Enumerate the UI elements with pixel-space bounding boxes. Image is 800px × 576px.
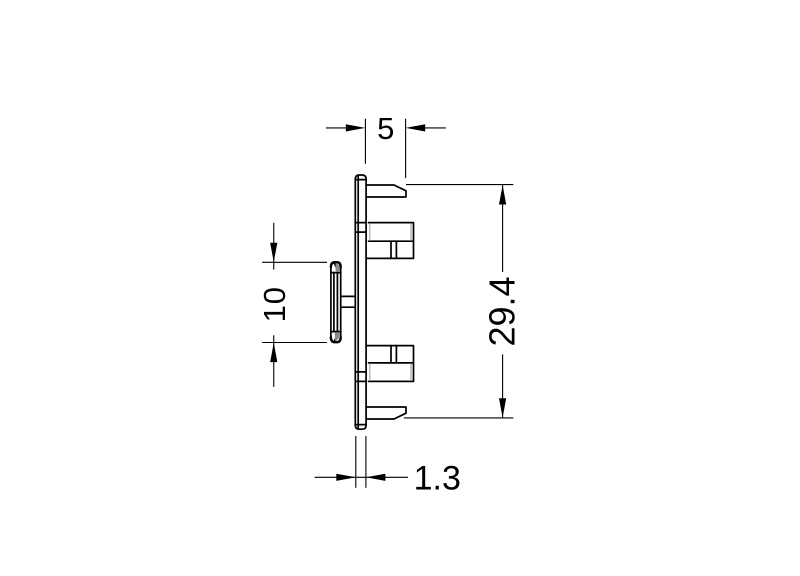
bottom tab [366, 407, 406, 419]
knob cap shaded faces [335, 263, 340, 341]
plate top cap line [355, 179, 366, 181]
dim 5 leader tails [326, 127, 348, 129]
dim 29.4 line segments [502, 185, 504, 272]
dim 1.3 extension lines [355, 436, 357, 488]
lower clip [366, 346, 413, 382]
svg-text:5: 5 [377, 111, 394, 146]
dim 10 extension lines [262, 261, 327, 263]
svg-text:10: 10 [257, 286, 292, 322]
top tab [366, 185, 406, 197]
dim 1.3 right arrow [366, 474, 386, 481]
tangent (light) edges [370, 223, 411, 380]
dim 5 right arrow [406, 124, 426, 131]
dim 1.3 line [315, 476, 408, 478]
knob tangent lines [331, 272, 341, 274]
dim 5 extension lines [364, 119, 366, 164]
dim 10 bottom arrow [270, 343, 277, 363]
dim 10 top arrow [270, 243, 277, 263]
knob bottom cap shading [335, 332, 339, 341]
plate bottom cap line [355, 424, 366, 426]
dim 10 line segments [273, 223, 275, 270]
dim 29.4 bottom arrow [499, 398, 506, 418]
plate inner edge line [357, 175, 359, 429]
knob top cap shading [335, 263, 339, 272]
upper clip [366, 223, 413, 259]
dim 29.4 top arrow [499, 185, 506, 205]
retaining knob [331, 262, 341, 342]
upper clip tangent edges [369, 223, 371, 240]
svg-text:29.4: 29.4 [481, 276, 522, 346]
upper clip root lines on plate [355, 222, 366, 224]
lower clip root lines on plate [355, 371, 366, 373]
dimensions [262, 119, 513, 488]
dim 5 left arrow [346, 124, 366, 131]
part outline group [331, 175, 414, 429]
lower clip tangent edges [369, 364, 371, 381]
svg-text:1.3: 1.3 [414, 459, 461, 497]
end-cap face plate [355, 175, 366, 429]
arrowheads [270, 124, 506, 481]
dim 29.4 extension lines [406, 184, 513, 186]
dim 1.3 left arrow [336, 474, 356, 481]
knob stem [341, 295, 356, 297]
